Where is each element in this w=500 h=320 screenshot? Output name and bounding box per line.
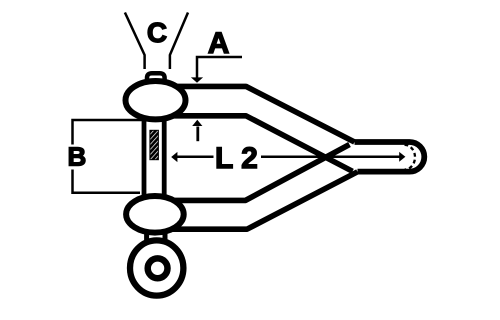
node pin eye inner hole bbox=[148, 258, 168, 278]
svg-text:A: A bbox=[208, 27, 230, 60]
node hidden hole edge (dashed arc) bbox=[405, 145, 416, 170]
wire shackle body: bottom arm bottom edge bbox=[172, 172, 358, 229]
svg-text:C: C bbox=[147, 17, 167, 48]
wire shackle body: top arm bottom edge bbox=[172, 116, 353, 172]
svg-text:L 2: L 2 bbox=[215, 142, 258, 175]
wire thickness up arrow bbox=[196, 127, 199, 142]
node label B mask bbox=[66, 145, 88, 170]
wire shackle body: top arm top edge bbox=[176, 86, 355, 142]
node pin eye outer ring bbox=[130, 240, 183, 295]
wire dimension A leader line bbox=[197, 57, 242, 78]
wire dimension L2 left arrow bbox=[176, 156, 214, 159]
node bottom ball of shackle bbox=[126, 196, 184, 233]
wire dimension L2 right arrow bbox=[261, 156, 400, 159]
wire dimension B bracket bbox=[73, 120, 143, 193]
node top ball of shackle bbox=[126, 81, 186, 119]
wire dimension C funnel left line bbox=[125, 13, 145, 70]
node pin head cap bbox=[147, 73, 165, 90]
wire dimension C funnel right line bbox=[170, 13, 188, 70]
svg-text:B: B bbox=[68, 142, 87, 172]
wire shackle eye tube outline bbox=[355, 142, 425, 172]
wire shackle body: bottom arm top edge bbox=[174, 145, 350, 201]
wire pin neck to eye bbox=[144, 228, 149, 248]
node dimension A arrowhead bbox=[191, 77, 203, 82]
wire clevis pin shaft bbox=[142, 108, 147, 200]
node threaded section of pin bbox=[150, 130, 159, 159]
